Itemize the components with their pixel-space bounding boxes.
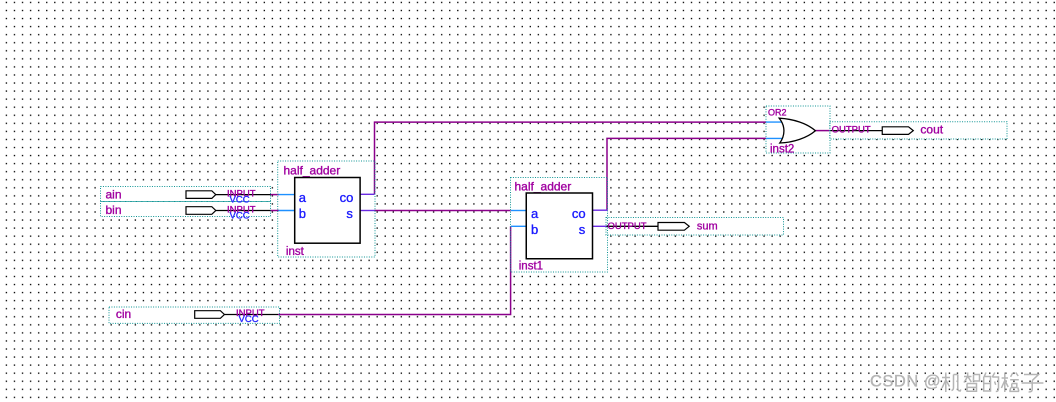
watermark glyph ji: [942, 373, 961, 393]
selection box fill ain: [101, 187, 271, 202]
selection box outline cin: [109, 307, 280, 323]
selection box fill OR2 inst2: [766, 106, 830, 153]
svg-text:bin: bin: [106, 203, 122, 217]
watermark glyph de: [984, 373, 999, 392]
selection box fill half_adder inst1: [511, 178, 608, 273]
half_adder U2 inst1: [511, 179, 608, 272]
output pin sum: [607, 221, 718, 233]
svg-text:co: co: [340, 190, 354, 205]
svg-text:sum: sum: [697, 221, 718, 233]
svg-text:VCC: VCC: [230, 210, 250, 221]
pin stub a of inst1: [511, 210, 527, 212]
pin stub input 1 of inst2: [766, 121, 785, 123]
pin stub s of inst1: [592, 225, 607, 227]
wire net OR2 output to cout: [815, 130, 830, 132]
or gate OR2 inst2: [766, 108, 815, 156]
svg-text:b: b: [299, 206, 306, 221]
watermark glyph zhi: [964, 373, 980, 392]
wire net co of inst to OR2 input 1: [375, 122, 767, 194]
selection box outline half_adder inst: [278, 161, 375, 257]
svg-text:b: b: [531, 222, 538, 237]
selection box outline bin: [101, 202, 271, 217]
selection box fill cout: [830, 122, 1007, 139]
selection box outline sum: [606, 218, 784, 236]
svg-text:s: s: [346, 206, 353, 221]
wire net co of inst1 to OR2 input 2: [607, 138, 766, 210]
wire net cin to b of inst1: [278, 226, 511, 314]
selection box outline cout: [830, 122, 1007, 139]
pin stub co of inst: [360, 193, 375, 195]
output pin cout: [830, 123, 943, 137]
svg-text:ain: ain: [106, 187, 122, 201]
selection box outline OR2 inst2: [766, 106, 830, 153]
input pin bin: [106, 203, 271, 221]
wire net bin: [271, 210, 280, 212]
svg-text:co: co: [572, 206, 586, 221]
selection box outline ain: [101, 187, 271, 202]
svg-text:cout: cout: [920, 123, 943, 137]
svg-text:cin: cin: [116, 307, 131, 321]
svg-text:s: s: [579, 222, 586, 237]
svg-text:VCC: VCC: [239, 314, 259, 325]
OR2 gate body: [779, 118, 815, 143]
wire net ain: [271, 194, 280, 196]
watermark glyph cheng: [1001, 373, 1019, 393]
pin stub b of inst1: [511, 225, 527, 227]
svg-text:OUTPUT: OUTPUT: [832, 125, 871, 136]
watermark glyph zi: [1022, 375, 1044, 393]
selection box fill half_adder inst: [278, 161, 375, 257]
pin stub a of inst: [279, 194, 296, 196]
watermark CSDN: [870, 373, 1043, 393]
pin stub input 2 of inst2: [766, 137, 785, 139]
input pin cin: [116, 307, 278, 325]
svg-text:CSDN @: CSDN @: [870, 373, 941, 391]
svg-text:OUTPUT: OUTPUT: [608, 221, 647, 232]
svg-text:half_adder: half_adder: [515, 179, 572, 193]
half_adder U1 inst: [279, 163, 375, 258]
selection box outline half_adder inst1: [511, 178, 608, 273]
svg-text:inst2: inst2: [770, 144, 794, 156]
input pin ain: [106, 187, 271, 205]
svg-text:a: a: [531, 206, 539, 221]
selection box fill bin: [101, 202, 271, 217]
svg-text:OR2: OR2: [768, 108, 787, 118]
svg-text:inst: inst: [286, 246, 305, 258]
selection box fill cin: [109, 307, 280, 323]
pin stub co of inst1: [592, 209, 608, 211]
svg-text:inst1: inst1: [519, 261, 543, 273]
pin stub b of inst: [279, 210, 296, 212]
pin stub s of inst: [360, 210, 375, 212]
wire net s of inst to a of inst1: [375, 210, 511, 212]
svg-text:a: a: [299, 190, 307, 205]
svg-text:half_adder: half_adder: [284, 163, 341, 177]
selection box fill sum: [606, 218, 784, 236]
